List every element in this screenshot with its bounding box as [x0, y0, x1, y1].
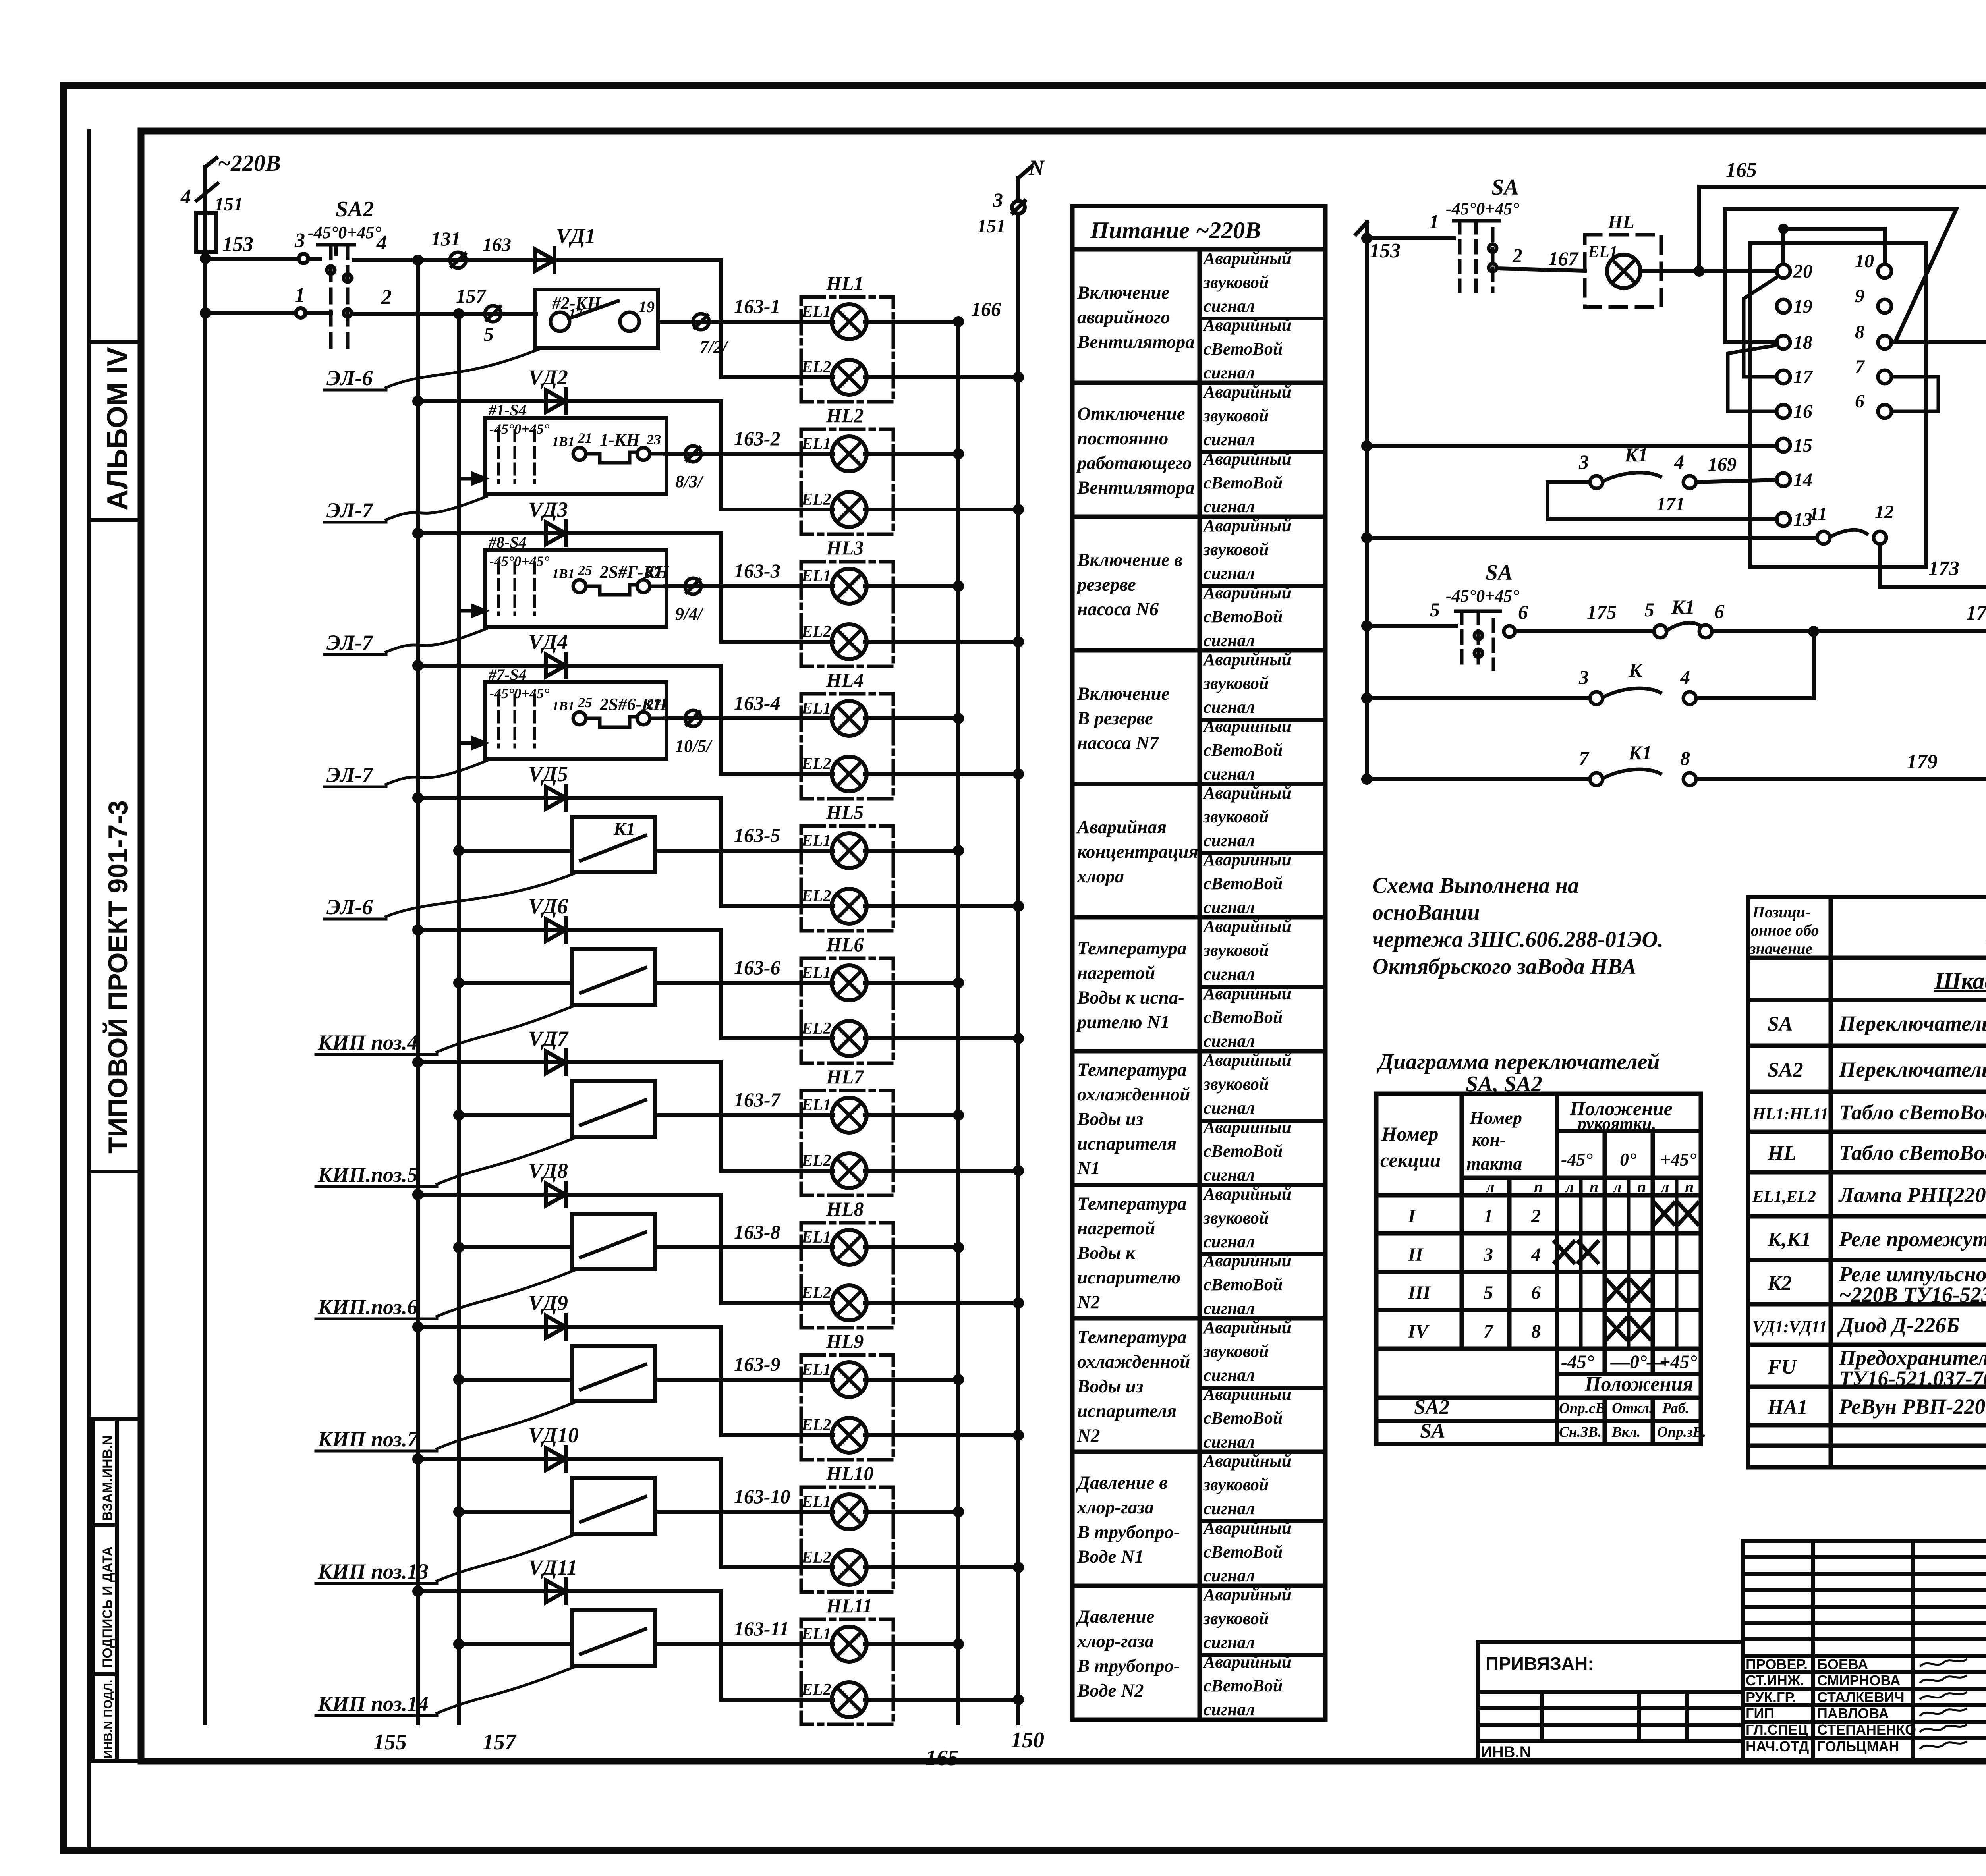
EL2 lamp wire to neutral bus 150 — [721, 1432, 1022, 1439]
svg-text:1: 1 — [295, 284, 305, 307]
wire corner down to EL2 line — [719, 533, 723, 642]
svg-text:VД6: VД6 — [528, 894, 568, 918]
entry wire from bus 157 — [455, 979, 572, 986]
diode VD8 — [528, 1159, 568, 1206]
wire riser to pin15 — [1363, 442, 1777, 450]
svg-text:АЛЬБОМ IV: АЛЬБОМ IV — [102, 347, 133, 510]
diode VD5 — [528, 762, 568, 810]
svg-text:ПОДПИСЬ И ДАТА: ПОДПИСЬ И ДАТА — [100, 1546, 115, 1668]
svg-text:EL1: EL1 — [801, 1228, 831, 1247]
svg-text:нагретой: нагретой — [1077, 963, 1155, 983]
EL2 lamp wire to neutral bus 150 — [721, 770, 1022, 778]
svg-text:EL1: EL1 — [801, 1625, 831, 1643]
wire pin12 down to relay K coil net 173 — [1880, 544, 1986, 587]
svg-text:кон-: кон- — [1472, 1129, 1506, 1150]
svg-text:К1: К1 — [613, 818, 635, 839]
svg-text:сигнал: сигнал — [1204, 363, 1255, 382]
svg-text:Реле промежуточное РП-25~220В;: Реле промежуточное РП-25~220В; ТУ16-523 … — [1839, 1227, 1986, 1251]
svg-text:чертежа ЗШС.606.288-01ЭО.: чертежа ЗШС.606.288-01ЭО. — [1372, 927, 1663, 952]
svg-text:163-2: 163-2 — [734, 427, 780, 450]
svg-text:ВЗАМ.ИНВ.N: ВЗАМ.ИНВ.N — [100, 1436, 115, 1521]
svg-text:166: 166 — [971, 298, 1001, 320]
svg-text:Номер: Номер — [1381, 1123, 1438, 1145]
wire to SA2 lower contact 1 — [202, 284, 331, 318]
svg-text:сигнал: сигнал — [1204, 1232, 1255, 1251]
svg-text:VД1:VД11: VД1:VД11 — [1752, 1318, 1827, 1336]
svg-text:HL3: HL3 — [826, 537, 864, 559]
svg-text:БОЕВА: БОЕВА — [1817, 1656, 1868, 1672]
lamp EL1 — [801, 303, 867, 339]
svg-text:п: п — [1685, 1178, 1694, 1196]
relay contact box row 8 — [572, 1214, 655, 1269]
svg-text:5: 5 — [1484, 1282, 1493, 1303]
K2 pin 20 — [1777, 264, 1790, 278]
svg-text:Воды к: Воды к — [1077, 1243, 1136, 1263]
K2 pin 7 — [1878, 370, 1891, 384]
svg-text:КИП.поз.5: КИП.поз.5 — [317, 1163, 418, 1187]
svg-text:звуковой: звуковой — [1203, 1341, 1269, 1361]
svg-text:СТАЛКЕВИЧ: СТАЛКЕВИЧ — [1817, 1689, 1905, 1705]
svg-text:Табло сВетоВое ТСМ ТУ16-535.42: Табло сВетоВое ТСМ ТУ16-535.424-70 — [1839, 1141, 1986, 1165]
svg-text:SA: SA — [1486, 560, 1513, 585]
svg-text:сВетоВой: сВетоВой — [1204, 473, 1283, 492]
K2 internal contact 11-12 — [1817, 530, 1886, 544]
terminal circle 10/5/ — [665, 716, 684, 720]
wire corner down to EL2 line — [719, 1459, 723, 1567]
svg-text:звуковой: звуковой — [1203, 940, 1269, 960]
svg-text:Аварийный: Аварийный — [1202, 449, 1291, 469]
svg-text:КИП поз.7: КИП поз.7 — [317, 1427, 419, 1451]
svg-text:163: 163 — [483, 234, 511, 255]
diode row wire from bus 155 — [414, 398, 721, 405]
svg-text:Аварийный: Аварийный — [1202, 583, 1291, 602]
svg-text:3: 3 — [1578, 451, 1589, 473]
svg-text:18: 18 — [1793, 332, 1812, 353]
svg-text:Включение в: Включение в — [1077, 550, 1182, 570]
svg-text:171: 171 — [1656, 494, 1685, 515]
svg-text:испарителю: испарителю — [1077, 1267, 1180, 1288]
svg-text:ГИП: ГИП — [1746, 1705, 1774, 1722]
svg-text:VД7: VД7 — [528, 1027, 569, 1050]
EL1 lamp wire to bus 165 — [655, 1244, 962, 1251]
svg-text:сВетоВой: сВетоВой — [1204, 1141, 1283, 1161]
svg-text:-45°: -45° — [1561, 1351, 1594, 1372]
svg-text:Включение: Включение — [1077, 683, 1170, 704]
entry wire from bus 157 — [455, 1376, 572, 1383]
svg-text:EL2: EL2 — [801, 623, 831, 641]
svg-text:л: л — [1565, 1178, 1574, 1196]
svg-text:IV: IV — [1408, 1321, 1430, 1342]
lamp EL1 — [801, 832, 867, 868]
diode VD7 — [528, 1027, 569, 1074]
svg-text:Аварийный: Аварийный — [1202, 382, 1291, 401]
sub row dividers (sound/light) — [1200, 318, 1325, 1655]
svg-text:п: п — [1637, 1178, 1646, 1196]
bracket pin7-pin6 — [1891, 377, 1938, 411]
svg-text:Температура: Температура — [1077, 938, 1187, 959]
svg-text:1: 1 — [1484, 1206, 1493, 1227]
svg-text:нагретой: нагретой — [1077, 1218, 1155, 1239]
relay contact box row 6 — [572, 949, 655, 1005]
svg-text:-45°0+45°: -45°0+45° — [1446, 199, 1519, 218]
wire corner down to EL2 line — [719, 401, 723, 510]
svg-text:осноВании: осноВании — [1372, 900, 1480, 925]
signal lamp box HL5 (dash-dot) — [801, 826, 893, 931]
wire pin8 to neutral riser — [1891, 338, 1986, 346]
svg-text:сигнал: сигнал — [1204, 831, 1255, 850]
svg-text:испарителя: испарителя — [1077, 1401, 1177, 1421]
svg-text:27: 27 — [646, 696, 662, 712]
svg-text:Аварийный: Аварийный — [1202, 1518, 1291, 1538]
svg-text:НА1: НА1 — [1767, 1396, 1808, 1419]
svg-text:ИНВ.N ПОДЛ.: ИНВ.N ПОДЛ. — [102, 1680, 115, 1759]
svg-text:HL5: HL5 — [826, 801, 864, 823]
EL1 lamp wire to bus 165 — [685, 318, 962, 325]
svg-text:Аварийный: Аварийный — [1202, 1384, 1291, 1404]
SA2 output wire pin 4 (net to row1 diode) — [354, 232, 552, 260]
svg-text:звуковой: звуковой — [1203, 1074, 1269, 1094]
svg-text:163-1: 163-1 — [734, 295, 780, 317]
svg-text:Аварийный: Аварийный — [1202, 917, 1291, 936]
wire pin20 to lamp — [1703, 269, 1777, 273]
svg-text:9/4/: 9/4/ — [675, 604, 704, 623]
svg-text:сВетоВой: сВетоВой — [1204, 1007, 1283, 1027]
signal lamp box HL9 (dash-dot) — [801, 1355, 893, 1460]
svg-text:EL1: EL1 — [801, 435, 831, 453]
svg-text:ПРИВЯЗАН:: ПРИВЯЗАН: — [1486, 1653, 1594, 1674]
svg-text:Аварийный: Аварийный — [1202, 783, 1291, 803]
svg-text:8: 8 — [1531, 1321, 1541, 1342]
entry wire from bus 157 — [455, 1641, 572, 1648]
svg-text:Воде N2: Воде N2 — [1077, 1680, 1144, 1701]
lamp EL1 — [801, 964, 867, 1000]
svg-text:25: 25 — [578, 562, 592, 578]
svg-text:аварийного: аварийного — [1077, 307, 1170, 328]
svg-text:169: 169 — [1708, 454, 1737, 475]
svg-text:SA: SA — [1420, 1420, 1445, 1442]
entry wire from bus 157 — [455, 1508, 572, 1515]
SA2 output wire pin 2 (net 157) — [354, 286, 536, 314]
signal lamp box HL11 (dash-dot) — [801, 1619, 893, 1724]
lamp EL2 — [801, 887, 867, 924]
riser net 153 — [1356, 222, 1401, 779]
svg-text:КИП поз.14: КИП поз.14 — [317, 1692, 429, 1716]
lamp EL1 of HL — [1607, 255, 1640, 288]
svg-text:ЭЛ-7: ЭЛ-7 — [326, 498, 373, 522]
signal lamp box HL10 (dash-dot) — [801, 1487, 893, 1592]
EL2 lamp wire to neutral bus 150 — [721, 1167, 1022, 1174]
lamp EL1 — [801, 699, 867, 736]
svg-text:175: 175 — [1587, 601, 1617, 623]
svg-text:HL: HL — [1767, 1142, 1796, 1165]
svg-text:значение: значение — [1749, 940, 1812, 957]
svg-text:-45°0+45°: -45°0+45° — [308, 223, 381, 242]
svg-text:HL10: HL10 — [826, 1462, 873, 1484]
svg-text:Воды из: Воды из — [1077, 1376, 1143, 1397]
svg-text:звуковой: звуковой — [1203, 540, 1269, 559]
svg-text:~220В: ~220В — [218, 150, 281, 176]
lamp EL2 — [801, 1548, 867, 1585]
entry wire from bus 157 — [455, 847, 572, 854]
svg-text:Температура: Температура — [1077, 1327, 1187, 1347]
switch SA (impulse test, dashed) — [1446, 175, 1519, 291]
EL2 lamp wire to neutral bus 150 — [721, 903, 1022, 910]
svg-text:КИП поз.4: КИП поз.4 — [317, 1031, 418, 1054]
svg-text:Воды к испа-: Воды к испа- — [1077, 987, 1184, 1008]
wire 153 to switch SA2 — [202, 229, 320, 263]
entry arrow from bus 157 — [459, 474, 485, 483]
svg-text:СТЕПАНЕНКО: СТЕПАНЕНКО — [1817, 1722, 1916, 1738]
svg-text:Аварийный: Аварийный — [1202, 650, 1291, 669]
bus 157 vertical — [455, 310, 517, 1754]
svg-text:6: 6 — [1518, 601, 1528, 623]
svg-text:Давление: Давление — [1076, 1606, 1155, 1627]
lamp EL1 — [801, 1361, 867, 1397]
svg-text:27: 27 — [646, 564, 662, 580]
contact box 1-КН with switch — [485, 418, 667, 494]
signal lamp box HL2 (dash-dot) — [801, 429, 893, 534]
svg-text:EL2: EL2 — [801, 358, 831, 376]
switch diagram table — [1376, 1094, 1701, 1444]
signal lamp box HL8 (dash-dot) — [801, 1223, 893, 1328]
svg-text:—0°—: —0°— — [1610, 1351, 1666, 1372]
svg-text:20: 20 — [1793, 261, 1812, 282]
terminal circle 9/4/ — [665, 584, 684, 588]
lamp HL dashed box — [1585, 235, 1661, 307]
svg-text:сВетоВой: сВетоВой — [1204, 1275, 1283, 1294]
svg-text:131: 131 — [431, 228, 461, 250]
svg-text:постоянно: постоянно — [1077, 428, 1168, 449]
svg-text:VД10: VД10 — [528, 1423, 579, 1447]
svg-text:EL2: EL2 — [801, 755, 831, 773]
svg-text:6: 6 — [1855, 391, 1864, 412]
svg-text:К,К1: К,К1 — [1767, 1228, 1811, 1251]
svg-text:SA2: SA2 — [1768, 1059, 1803, 1081]
diode row wire from bus 155 — [414, 1588, 721, 1595]
relay contact box row 10 — [572, 1478, 655, 1534]
svg-text:SA2: SA2 — [336, 197, 374, 222]
svg-text:К1: К1 — [1671, 596, 1695, 618]
svg-text:EL1: EL1 — [801, 1361, 831, 1379]
lamp EL2 — [801, 755, 867, 791]
contact 3-K-4 row — [1363, 631, 1814, 704]
wire corner down to EL2 line — [719, 798, 723, 906]
terminal circle 8/3/ — [665, 452, 684, 456]
svg-text:Аварийный: Аварийный — [1202, 1117, 1291, 1137]
svg-text:HL1:HL11: HL1:HL11 — [1752, 1105, 1828, 1123]
svg-text:звуковой: звуковой — [1203, 1208, 1269, 1228]
svg-text:+45°: +45° — [1660, 1351, 1697, 1372]
EL2 lamp wire to neutral bus 150 — [721, 1564, 1022, 1571]
svg-text:VД1: VД1 — [556, 224, 596, 248]
svg-text:Сн.ЗВ.: Сн.ЗВ. — [1559, 1424, 1602, 1440]
net ~220V arrow label — [205, 150, 281, 259]
svg-text:Аварийный: Аварийный — [1202, 315, 1291, 335]
svg-text:5: 5 — [1644, 598, 1654, 621]
svg-text:ТИПОВОЙ ПРОЕКТ 901-7-3: ТИПОВОЙ ПРОЕКТ 901-7-3 — [102, 800, 133, 1154]
signal lamp box HL7 (dash-dot) — [801, 1090, 893, 1195]
svg-text:#7-S4: #7-S4 — [488, 666, 527, 683]
neutral bus 150 vertical with N flag — [977, 156, 1045, 1752]
svg-text:#8-S4: #8-S4 — [488, 533, 527, 551]
svg-text:Температура: Температура — [1077, 1193, 1187, 1214]
svg-text:EL1: EL1 — [801, 303, 831, 321]
svg-text:КИП поз.13: КИП поз.13 — [317, 1559, 429, 1583]
wire SA pin 2 to lamp HL net 167 — [1497, 244, 1772, 271]
svg-text:HL7: HL7 — [826, 1065, 864, 1088]
svg-text:0°: 0° — [1620, 1149, 1636, 1170]
svg-text:хлор-газа: хлор-газа — [1077, 1497, 1154, 1518]
svg-text:такта: такта — [1466, 1153, 1522, 1173]
svg-text:работающего: работающего — [1076, 453, 1192, 473]
svg-text:звуковой: звуковой — [1203, 406, 1269, 425]
diode VD10 — [528, 1423, 579, 1471]
K2 pin 15 — [1777, 438, 1790, 452]
svg-text:секции: секции — [1380, 1149, 1441, 1171]
relay K2 (impulse signalling relay) box — [1750, 243, 1926, 567]
svg-text:сВетоВой: сВетоВой — [1204, 1542, 1283, 1561]
K2 pin 16 — [1777, 405, 1790, 418]
svg-text:1В1: 1В1 — [552, 434, 575, 449]
diode VD1 on feeder wire — [535, 224, 596, 272]
wire corner down to EL2 line — [719, 1062, 723, 1171]
EL1 lamp wire to bus 165 — [685, 450, 962, 457]
relay contact box row 9 — [572, 1346, 655, 1401]
svg-text:2: 2 — [1512, 244, 1522, 266]
svg-text:-45°0+45°: -45°0+45° — [489, 685, 550, 701]
svg-text:ГЛ.СПЕЦ: ГЛ.СПЕЦ — [1746, 1722, 1808, 1738]
K2 pin 14 — [1777, 473, 1790, 486]
svg-text:сигнал: сигнал — [1204, 697, 1255, 717]
EL2 lamp wire to neutral bus 150 — [721, 638, 1022, 645]
K2 pin 13 — [1777, 513, 1790, 526]
relay contact box row 7 — [572, 1081, 655, 1137]
svg-text:SA2: SA2 — [1414, 1396, 1450, 1419]
EL1 lamp wire to bus 165 — [685, 583, 962, 590]
contact box #2-KN — [535, 290, 658, 348]
lamp EL1 — [801, 435, 867, 471]
wire corner down to EL2 line — [719, 1195, 723, 1303]
lamp EL2 — [801, 1019, 867, 1056]
lamp EL1 — [801, 1096, 867, 1133]
svg-text:HL4: HL4 — [826, 669, 864, 691]
svg-text:EL1,EL2: EL1,EL2 — [1752, 1188, 1816, 1206]
K2 pin 17 — [1777, 370, 1790, 384]
K2 pin 9 — [1878, 299, 1891, 313]
svg-text:Раб.: Раб. — [1662, 1400, 1689, 1417]
svg-text:VД2: VД2 — [528, 365, 568, 389]
signal lamp box HL4 (dash-dot) — [801, 694, 893, 799]
svg-text:сВетоВой: сВетоВой — [1204, 874, 1283, 893]
svg-text:SA: SA — [1768, 1013, 1793, 1035]
diode row wire from bus 155 — [414, 662, 721, 669]
svg-text:VД3: VД3 — [528, 498, 568, 521]
svg-text:17: 17 — [1793, 367, 1813, 388]
EL1 lamp wire to bus 165 — [655, 1112, 962, 1119]
svg-text:л: л — [1613, 1178, 1622, 1196]
svg-text:16: 16 — [1793, 401, 1812, 422]
svg-text:#1-S4: #1-S4 — [488, 401, 527, 419]
SA lower output pin 6 wire net 175 with contact 5-K1-6 — [1504, 623, 1986, 638]
lamp EL1 — [801, 1625, 867, 1662]
svg-text:9: 9 — [1855, 286, 1864, 307]
svg-text:-45°0+45°: -45°0+45° — [489, 553, 550, 569]
EL1 lamp wire to bus 165 — [655, 847, 962, 854]
svg-text:сигнал: сигнал — [1204, 1365, 1255, 1385]
svg-text:Аварийный: Аварийный — [1202, 1585, 1291, 1604]
svg-text:N: N — [1028, 156, 1045, 179]
signal lamp box HL6 (dash-dot) — [801, 958, 893, 1063]
contact 7-K1-8 row to bell — [1363, 769, 1986, 786]
signal lamp box HL1 (dash-dot) — [801, 297, 893, 402]
svg-text:сВетоВой: сВетоВой — [1204, 1408, 1283, 1428]
svg-text:ПРОВЕР.: ПРОВЕР. — [1746, 1656, 1808, 1672]
diagonal pin20 to pin17 bracket — [1744, 276, 1779, 377]
svg-text:153: 153 — [222, 233, 253, 256]
svg-text:Аварийный: Аварийный — [1202, 1184, 1291, 1204]
svg-text:+45°: +45° — [1660, 1149, 1696, 1170]
entry wire from bus 157 — [455, 1112, 572, 1119]
wire riser to SA pin 1 — [1363, 210, 1454, 242]
svg-text:звуковой: звуковой — [1203, 1609, 1269, 1628]
svg-text:сигнал: сигнал — [1204, 497, 1255, 516]
wire riser to contact 11 row — [1363, 534, 1817, 541]
svg-text:I: I — [1408, 1206, 1416, 1227]
svg-text:157: 157 — [483, 1730, 517, 1754]
svg-text:Переключатель УП5312-С45 ТУ16-: Переключатель УП5312-С45 ТУ16-524.074-70 — [1839, 1058, 1986, 1081]
wire corner down to EL2 line — [719, 1591, 723, 1700]
svg-text:Переключатель УП5312-А45 ТУ16-: Переключатель УП5312-А45 ТУ16-524-074-70 — [1839, 1011, 1986, 1035]
switch SA lower section (dashed) — [1446, 560, 1519, 669]
svg-text:155: 155 — [373, 1730, 407, 1754]
svg-text:Аварийный: Аварийный — [1202, 1050, 1291, 1070]
wire corner down to EL2 line — [719, 666, 723, 774]
svg-text:25: 25 — [578, 695, 592, 710]
svg-text:Откл.: Откл. — [1612, 1400, 1653, 1417]
diode VD9 — [528, 1291, 568, 1339]
svg-text:звуковой: звуковой — [1203, 674, 1269, 693]
svg-text:EL1: EL1 — [801, 699, 831, 718]
svg-text:4: 4 — [180, 185, 191, 208]
diode VD4 — [528, 630, 568, 677]
svg-text:сигнал: сигнал — [1204, 564, 1255, 583]
svg-text:звуковой: звуковой — [1203, 807, 1269, 826]
switch SA2 (packet switch, dashed) — [308, 197, 381, 351]
svg-text:ИНВ.N: ИНВ.N — [1481, 1743, 1531, 1761]
svg-text:л: л — [1660, 1178, 1669, 1196]
disconnect slash and labels 4 / 151 — [180, 183, 243, 215]
svg-text:К: К — [1628, 659, 1644, 682]
EL1 lamp wire to bus 165 — [685, 715, 962, 722]
diode VD3 — [528, 498, 568, 545]
diode row wire from bus 155 — [414, 794, 721, 801]
entry wire from bus 157 — [455, 1244, 572, 1251]
diode row wire from bus 155 — [414, 1059, 721, 1066]
svg-text:сигнал: сигнал — [1204, 1031, 1255, 1051]
svg-text:Аварийный: Аварийный — [1202, 850, 1291, 869]
svg-text:11: 11 — [1809, 504, 1827, 525]
svg-text:сигнал: сигнал — [1204, 897, 1255, 917]
svg-text:153: 153 — [1370, 239, 1401, 262]
svg-text:ЭЛ-6: ЭЛ-6 — [326, 895, 373, 919]
svg-text:7: 7 — [1855, 356, 1865, 377]
svg-text:163-10: 163-10 — [734, 1485, 790, 1507]
bus 155 vertical — [373, 257, 421, 1754]
svg-text:19: 19 — [1793, 296, 1812, 317]
svg-text:167: 167 — [1548, 247, 1579, 270]
svg-text:п: п — [1590, 1178, 1598, 1196]
svg-text:23: 23 — [646, 432, 661, 448]
